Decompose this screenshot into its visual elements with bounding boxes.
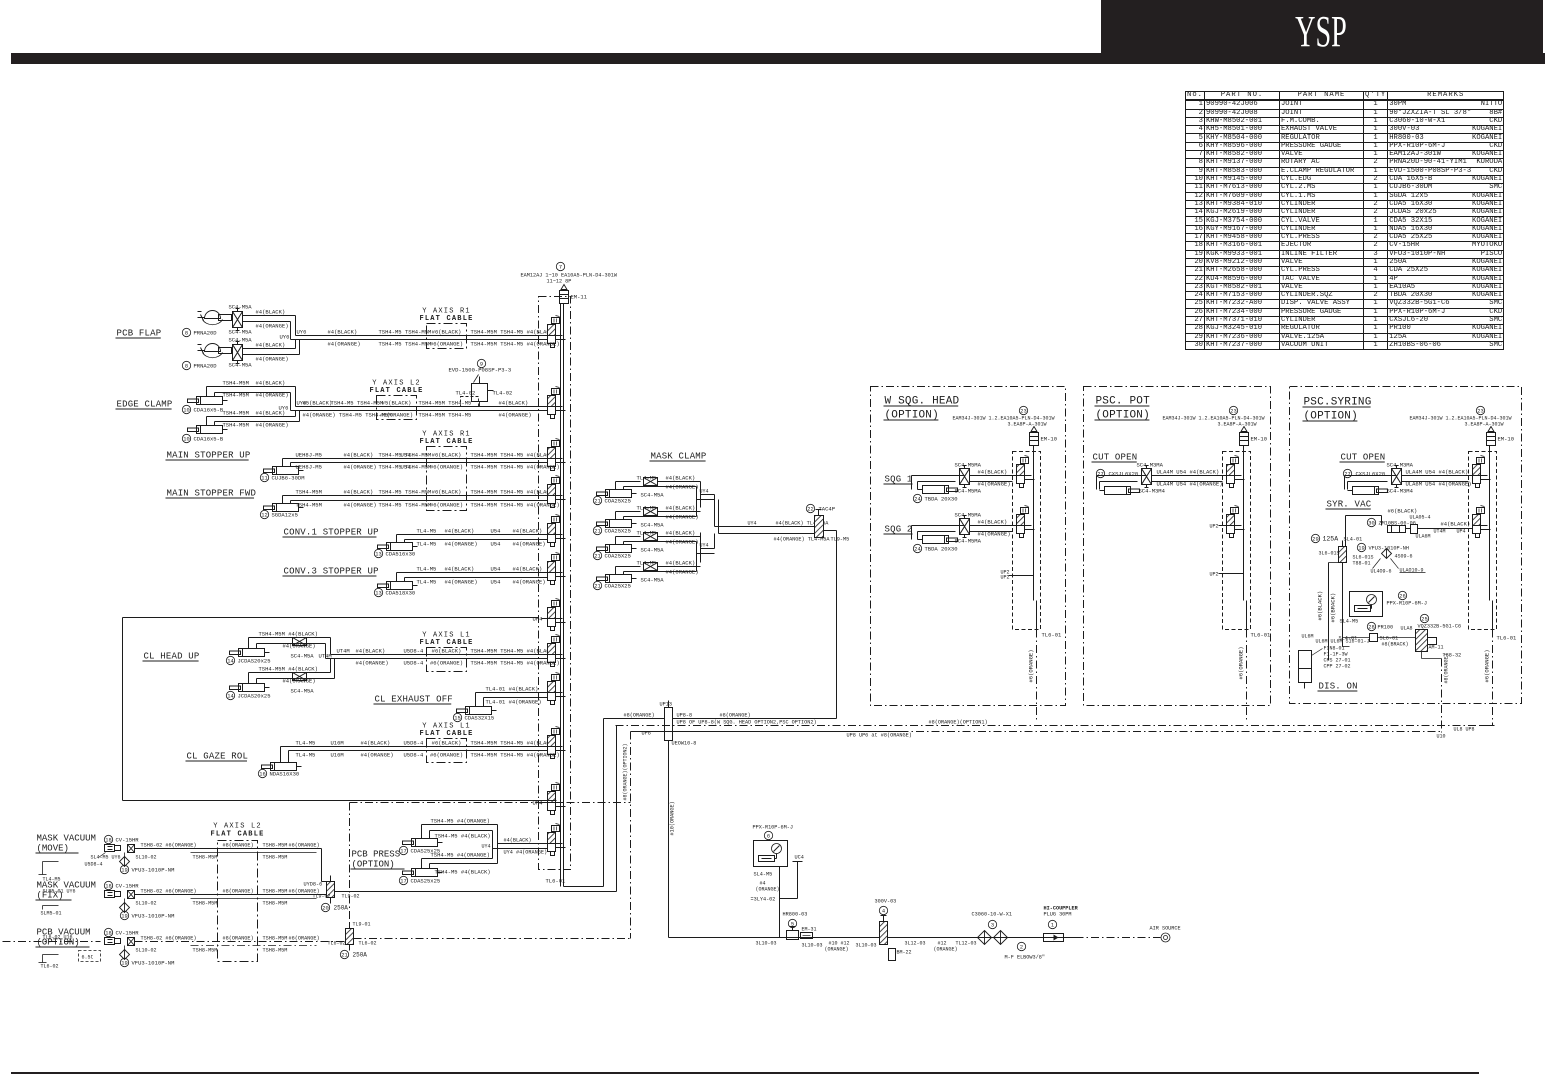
cylinder 11 CUJB6-30DM bbox=[273, 467, 299, 475]
svg-text:SYR. VAC: SYR. VAC bbox=[1327, 500, 1372, 510]
svg-text:3.EA8P-A-301W: 3.EA8P-A-301W bbox=[1218, 422, 1257, 428]
solenoid valve (POT cut open) bbox=[1227, 465, 1235, 476]
svg-text:TSH4-M5 #4(BLACK): TSH4-M5 #4(BLACK) bbox=[435, 869, 491, 876]
bottom border line bbox=[11, 1072, 1479, 1074]
CL section enclosure box bbox=[123, 617, 539, 619]
svg-text:UEH8J-M5: UEH8J-M5 bbox=[296, 464, 322, 471]
svg-text:UY6: UY6 bbox=[297, 329, 307, 336]
svg-text:#6(BLACK): #6(BLACK) bbox=[1317, 591, 1324, 621]
svg-text:#4(BLACK): #4(BLACK) bbox=[344, 452, 374, 459]
dash boundary PCB PRESS option bbox=[350, 802, 631, 804]
svg-text:#4(BLACK): #4(BLACK) bbox=[445, 528, 475, 535]
wire PCB FLAP A orange bbox=[243, 321, 291, 323]
svg-text:10: 10 bbox=[183, 437, 189, 443]
svg-text:CDAS25x25: CDAS25x25 bbox=[411, 878, 441, 885]
label 23 valve assy (PSC POT) bbox=[1229, 406, 1237, 414]
label 23 valve assy (W SQG) bbox=[1019, 406, 1027, 414]
svg-text:EM-10: EM-10 bbox=[1498, 436, 1515, 443]
svg-text:SQG 2: SQG 2 bbox=[885, 525, 913, 535]
svg-text:UL6M: UL6M bbox=[1302, 634, 1314, 640]
inline filter 19 VFU3-1010P-NH (MASK VACUUM MOVE) bbox=[120, 857, 130, 867]
svg-text:#8(ORANGE)(OPTION1): #8(ORANGE)(OPTION1) bbox=[929, 720, 988, 726]
supply line TL6-01 (POT) bbox=[1246, 601, 1248, 630]
rotary actuator 8 PRNA20D #1 bbox=[205, 311, 221, 319]
svg-text:PLUG 30PM: PLUG 30PM bbox=[1044, 912, 1072, 918]
svg-text:TSH4-M5M TSH4-M5 #4(BLACK): TSH4-M5M TSH4-M5 #4(BLACK) bbox=[471, 329, 557, 336]
svg-text:CXSJL6X20: CXSJL6X20 bbox=[1356, 471, 1386, 478]
svg-text:SC4-M3M4: SC4-M3M4 bbox=[1387, 488, 1414, 495]
svg-text:COA25X25: COA25X25 bbox=[605, 553, 631, 560]
svg-text:(ORANGE): (ORANGE) bbox=[825, 947, 849, 953]
solenoid valve SQG 2 bbox=[1017, 515, 1025, 526]
wire PCB VACUUM bbox=[135, 941, 346, 943]
wire pair CL GAZE ROL to valve 10 bbox=[280, 747, 282, 763]
svg-text:TSH8-02 #6(ORANGE): TSH8-02 #6(ORANGE) bbox=[141, 936, 197, 942]
ejector 18 CV-15HR (PCB VACUUM) bbox=[104, 928, 112, 936]
svg-text:CDA518X30: CDA518X30 bbox=[386, 590, 416, 597]
wire pair MAIN STOPPER FWD to valve 4 bbox=[282, 496, 284, 504]
wire EDGE CLAMP B orange bbox=[214, 422, 216, 426]
svg-text:#6(ORANGE): #6(ORANGE) bbox=[430, 341, 463, 348]
svg-text:TL4-M5: TL4-M5 bbox=[637, 505, 657, 512]
svg-text:CUJB6-30DM: CUJB6-30DM bbox=[272, 475, 305, 482]
fitting (PCB VACUUM) bbox=[128, 938, 135, 946]
svg-text:MASK VACUUM: MASK VACUUM bbox=[37, 834, 96, 844]
svg-text:TSH8-M5M: TSH8-M5M bbox=[263, 855, 288, 861]
wire TAC4P down to junction line bbox=[824, 530, 837, 532]
svg-text:6: 6 bbox=[767, 834, 770, 840]
cylinder 21 COA25X25 #1 bbox=[606, 490, 632, 498]
svg-text:#5(BLACK): #5(BLACK) bbox=[382, 400, 412, 407]
svg-text:7: 7 bbox=[559, 265, 562, 271]
cylinder 15 CDAS32X15 bbox=[466, 707, 492, 715]
svg-text:TSH4-M5 TSH4-M5M: TSH4-M5 TSH4-M5M bbox=[331, 400, 384, 407]
svg-text:TL4-M5: TL4-M5 bbox=[417, 566, 437, 573]
wire mask clamp cyl#1 orange bbox=[623, 487, 625, 490]
svg-text:U5D8-4: U5D8-4 bbox=[404, 740, 425, 747]
svg-text:CL GAZE ROL: CL GAZE ROL bbox=[187, 752, 249, 762]
label 10 CDA16x5-B #2 bbox=[182, 434, 190, 442]
solenoid valve 1 (PCB FLAP) bbox=[548, 325, 556, 336]
wire MASK VACUUM MOVE bbox=[135, 848, 322, 850]
svg-text:CUT OPEN: CUT OPEN bbox=[1093, 453, 1138, 463]
svg-text:#4(ORANGE): #4(ORANGE) bbox=[666, 484, 699, 491]
svg-text:AM-11: AM-11 bbox=[1429, 645, 1444, 651]
svg-text:TL4-02: TL4-02 bbox=[493, 390, 513, 397]
flat cable box Y AXIS L2 bbox=[377, 396, 417, 420]
svg-text:PPX-R10P-6M-J: PPX-R10P-6M-J bbox=[1387, 601, 1427, 607]
svg-text:#8(ORANGE): #8(ORANGE) bbox=[223, 936, 254, 942]
svg-text:#4(ORANGE): #4(ORANGE) bbox=[499, 412, 532, 419]
svg-text:21: 21 bbox=[341, 953, 347, 959]
wire 250A output to riser bbox=[335, 891, 617, 893]
svg-text:#4(ORANGE): #4(ORANGE) bbox=[283, 643, 316, 650]
svg-text:#4(BLACK): #4(BLACK) bbox=[256, 380, 286, 387]
manifold box (PSC POT) bbox=[1223, 452, 1251, 630]
dashed riser from 250A-2 to PCB PRESS box bbox=[349, 803, 351, 929]
inline filter 19 VFU3-1010P-NH (MASK VACUUM FIX) bbox=[120, 903, 130, 913]
valve 20 250A bbox=[327, 882, 335, 898]
trunk line 1 (UP8-8) bbox=[604, 718, 665, 720]
svg-text:EM-31: EM-31 bbox=[802, 927, 817, 933]
svg-text:TSH4-M5M TSH4-M5 #4(BLACK): TSH4-M5M TSH4-M5 #4(BLACK) bbox=[471, 740, 557, 747]
svg-text:#6(ORANGE): #6(ORANGE) bbox=[430, 752, 463, 759]
svg-text:23: 23 bbox=[1230, 409, 1236, 415]
svg-text:TSH4-M5 #4(BLACK): TSH4-M5 #4(BLACK) bbox=[435, 833, 491, 840]
svg-text:TBDA 20X30: TBDA 20X30 bbox=[925, 546, 958, 553]
svg-text:TSH8-02 #6(ORANGE): TSH8-02 #6(ORANGE) bbox=[141, 843, 197, 849]
rotary actuator 8 PRNA20D #2 bbox=[205, 344, 221, 352]
svg-text:#4(BLACK): #4(BLACK) bbox=[256, 342, 286, 349]
svg-text:#8(ORANGE)(OPTION2): #8(ORANGE)(OPTION2) bbox=[623, 743, 629, 800]
svg-text:UY4: UY4 bbox=[700, 489, 709, 495]
svg-text:3L10-03: 3L10-03 bbox=[856, 943, 877, 949]
svg-text:ULA8: ULA8 bbox=[1401, 626, 1413, 632]
svg-text:U54: U54 bbox=[491, 566, 502, 573]
svg-text:VFU3-1010P-NM: VFU3-1010P-NM bbox=[132, 960, 175, 967]
flat cable box Y AXIS L1 bbox=[427, 739, 467, 763]
wire mask clamp cyl#2 orange bbox=[623, 517, 625, 520]
svg-text:#8(ORANGE): #8(ORANGE) bbox=[720, 713, 751, 719]
cylinder 21 COA25X25 #3 bbox=[606, 545, 632, 553]
svg-text:14: 14 bbox=[227, 694, 233, 700]
fitting (MASK VACUUM MOVE) bbox=[128, 845, 135, 853]
svg-text:HR800-03: HR800-03 bbox=[783, 912, 808, 918]
svg-text:250A: 250A bbox=[353, 952, 368, 959]
svg-text:#6(BLACK): #6(BLACK) bbox=[432, 740, 462, 747]
wire CL HEAD B orange bbox=[256, 679, 258, 684]
svg-text:#6(BLACK): #6(BLACK) bbox=[432, 452, 462, 459]
manifold supply bus lines bbox=[560, 304, 562, 887]
svg-text:U10: U10 bbox=[1437, 734, 1446, 740]
svg-text:#4(BLACK): #4(BLACK) bbox=[513, 528, 543, 535]
svg-text:TL4-M5: TL4-M5 bbox=[637, 475, 657, 482]
svg-text:28: 28 bbox=[1368, 625, 1374, 631]
air source symbol bbox=[1161, 933, 1170, 942]
svg-text:TL4-M5: TL4-M5 bbox=[637, 560, 657, 567]
svg-text:2: 2 bbox=[1020, 945, 1023, 951]
syringe body bbox=[1299, 651, 1312, 669]
svg-text:UYD8-6: UYD8-6 bbox=[304, 882, 323, 888]
svg-text:3L12-03: 3L12-03 bbox=[905, 941, 926, 947]
svg-text:PR100: PR100 bbox=[1378, 625, 1394, 631]
svg-text:SC4-M5A: SC4-M5A bbox=[229, 362, 253, 369]
wire MASK VACUUM FIX bbox=[135, 894, 327, 896]
svg-text:EM-11: EM-11 bbox=[571, 294, 588, 301]
flat cable box Y AXIS R1 bbox=[427, 447, 467, 511]
solenoid valve 6 (CONV.3) bbox=[548, 562, 556, 573]
ejector 18 CV-15HR (MASK VACUUM MOVE) bbox=[104, 835, 112, 843]
svg-text:#4(ORANGE): #4(ORANGE) bbox=[445, 541, 478, 548]
svg-text:TSH4-M5M: TSH4-M5M bbox=[223, 422, 249, 429]
svg-text:BM-22: BM-22 bbox=[897, 950, 912, 956]
cylinder 24 TBDA 20X30 (SQG1) bbox=[923, 486, 949, 494]
svg-text:TSH4-M5M TSH4-M5 #4(ORANGE): TSH4-M5M TSH4-M5 #4(ORANGE) bbox=[471, 660, 560, 667]
svg-text:#4(BLACK): #4(BLACK) bbox=[666, 530, 696, 537]
svg-text:#4(BLACK): #4(BLACK) bbox=[499, 400, 529, 407]
svg-text:SC4-M5A: SC4-M5A bbox=[291, 688, 315, 695]
svg-text:CDA16x5-B: CDA16x5-B bbox=[194, 436, 224, 443]
svg-text:4: 4 bbox=[882, 909, 885, 915]
svg-text:VFU3-1010P-NM: VFU3-1010P-NM bbox=[132, 913, 175, 920]
wire CL HEAD B black bbox=[248, 673, 250, 684]
svg-text:TL6-01: TL6-01 bbox=[1042, 632, 1063, 639]
speed controller SC4-M5A (mask clamp) #3 bbox=[644, 533, 658, 541]
svg-text:TSH8-M5M: TSH8-M5M bbox=[263, 843, 288, 849]
label 8 PRNA20D #2 bbox=[182, 361, 190, 369]
svg-text:#4(BLACK): #4(BLACK) bbox=[666, 560, 696, 567]
manifold box (W SQG) bbox=[1013, 452, 1041, 630]
svg-text:#8(ORANGE): #8(ORANGE) bbox=[624, 713, 655, 719]
svg-text:SLM5-01 UY6: SLM5-01 UY6 bbox=[43, 889, 76, 895]
solenoid valve 4 (MAIN STOPPER FWD) bbox=[548, 485, 556, 496]
solenoid valve SQG 1 bbox=[1017, 465, 1025, 476]
svg-text:TSH4-M5M: TSH4-M5M bbox=[223, 410, 249, 417]
svg-text:PCB PRESS: PCB PRESS bbox=[352, 850, 401, 860]
svg-text:CV-15HR: CV-15HR bbox=[116, 883, 140, 890]
svg-text:UP4: UP4 bbox=[1457, 529, 1466, 535]
inline filter 19 VFU3-1010P-NH (SYRING) bbox=[1357, 543, 1365, 551]
svg-text:UY4: UY4 bbox=[700, 543, 709, 549]
cylinder 12 SGDA12x5 bbox=[273, 504, 299, 512]
svg-text:#4(ORANGE): #4(ORANGE) bbox=[256, 392, 289, 399]
vacuum unit 30 ZH10BS-06-06 bbox=[1367, 518, 1375, 526]
node UY4 group2 bbox=[700, 533, 702, 563]
svg-text:#4(BLACK): #4(BLACK) bbox=[666, 475, 696, 482]
cylinder 27 CXSJL6X20 (POT) bbox=[1096, 469, 1104, 477]
svg-text:TSH8-02 #6(ORANGE): TSH8-02 #6(ORANGE) bbox=[141, 889, 197, 895]
svg-text:SC4-M5A: SC4-M5A bbox=[641, 577, 665, 584]
svg-text:#4(BLACK): #4(BLACK) bbox=[445, 566, 475, 573]
wire pair EDGE CLAMP to valve 2 bbox=[296, 406, 548, 408]
cylinder 14 JCDAS20x25 #1 bbox=[239, 649, 265, 657]
svg-text:TSH4-M5M TSH4-M5: TSH4-M5M TSH4-M5 bbox=[419, 400, 472, 407]
parts list table bbox=[1185, 91, 1504, 350]
svg-text:CXSJL6X20: CXSJL6X20 bbox=[1109, 471, 1139, 478]
flat cable box Y AXIS R1 bbox=[427, 324, 467, 349]
svg-text:#4(BLACK): #4(BLACK) bbox=[1441, 521, 1471, 528]
svg-text:U5D8-4: U5D8-4 bbox=[404, 752, 425, 759]
supply line TL6-01 (SYRING) bbox=[1492, 601, 1494, 630]
svg-text:TL6-02 U16: TL6-02 U16 bbox=[43, 935, 73, 941]
wire pair MAIN STOPPER UP to valve 3 bbox=[282, 459, 284, 467]
svg-text:12: 12 bbox=[261, 513, 267, 519]
svg-text:#4(ORANGE): #4(ORANGE) bbox=[978, 481, 1011, 488]
svg-text:SGDA12x5: SGDA12x5 bbox=[272, 512, 298, 519]
wire mask clamp cyl#3 orange bbox=[623, 542, 625, 545]
svg-text:19: 19 bbox=[121, 961, 127, 967]
svg-text:PPX-R10P-6M-J: PPX-R10P-6M-J bbox=[753, 825, 793, 831]
cylinder 24 TBDA 20X30 (SQG2) bbox=[923, 536, 949, 544]
svg-text:#4(BLACK): #4(BLACK) bbox=[978, 469, 1008, 476]
svg-text:NDAS16X30: NDAS16X30 bbox=[270, 771, 300, 778]
svg-text:EDGE CLAMP: EDGE CLAMP bbox=[117, 400, 173, 410]
title block bbox=[1101, 0, 1543, 64]
svg-text:TSH4-M5M TSH4-M5 #4(BLACK): TSH4-M5M TSH4-M5 #4(BLACK) bbox=[471, 648, 557, 655]
svg-text:TL6-02: TL6-02 bbox=[359, 941, 377, 947]
svg-text:#8(ORANGE): #8(ORANGE) bbox=[1444, 653, 1450, 683]
svg-text:#4(ORANGE): #4(ORANGE) bbox=[361, 752, 394, 759]
disp valve assy 25 VQZ332B-5G1-C6 bbox=[1420, 614, 1428, 622]
svg-text:COA25X25: COA25X25 bbox=[605, 583, 631, 590]
speed controller SC4-M5MA (SQG2) bbox=[960, 519, 970, 535]
svg-text:TL6-01: TL6-01 bbox=[1497, 635, 1518, 642]
svg-text:(ORANGE): (ORANGE) bbox=[756, 887, 780, 893]
svg-text:VQZ332B-5G1-C6: VQZ332B-5G1-C6 bbox=[1418, 624, 1462, 630]
svg-text:3L6-01S: 3L6-01S bbox=[1319, 551, 1340, 557]
svg-text:SL4-M5: SL4-M5 bbox=[1340, 619, 1359, 625]
terminal block EM-10 (PSC POT) bbox=[1240, 433, 1249, 446]
svg-text:UP8 UP6 at #8(ORANGE): UP8 UP6 at #8(ORANGE) bbox=[847, 733, 912, 739]
svg-text:CL EXHAUST OFF: CL EXHAUST OFF bbox=[375, 695, 453, 705]
svg-text:TSH8-M5M: TSH8-M5M bbox=[193, 948, 218, 954]
svg-text:TL6-01: TL6-01 bbox=[546, 878, 567, 885]
svg-text:27: 27 bbox=[1097, 472, 1103, 478]
svg-text:CV-15HR: CV-15HR bbox=[116, 930, 140, 937]
svg-text:TL4-M5: TL4-M5 bbox=[637, 530, 657, 537]
svg-text:TL4-M5: TL4-M5 bbox=[417, 528, 437, 535]
svg-text:TL4-M5: TL4-M5 bbox=[417, 541, 437, 548]
speed controller SC4-M5A (mask clamp) #4 bbox=[644, 563, 658, 571]
wire CL HEAD A black bbox=[248, 638, 250, 649]
label 23 valve assy (SYRING) bbox=[1476, 406, 1484, 414]
svg-text:TSH4-M5 TSH4-M5M: TSH4-M5 TSH4-M5M bbox=[379, 452, 432, 459]
svg-text:#4(BLACK): #4(BLACK) bbox=[666, 505, 696, 512]
wires SYR cut open to valve bbox=[1344, 476, 1346, 490]
svg-text:EM-10: EM-10 bbox=[1041, 436, 1058, 443]
svg-text:TL4-M5: TL4-M5 bbox=[296, 752, 316, 759]
svg-text:ULA6M U54 #4(ORANGE): ULA6M U54 #4(ORANGE) bbox=[1406, 481, 1472, 488]
svg-text:UEOW10-8: UEOW10-8 bbox=[672, 741, 697, 747]
wire gauge to air line bbox=[779, 867, 781, 938]
svg-text:#8(ORANGE): #8(ORANGE) bbox=[223, 889, 254, 895]
regulator 28 PR100 bbox=[1367, 622, 1375, 630]
svg-text:CDA16x5-B: CDA16x5-B bbox=[194, 407, 224, 414]
wires SYR VAC bbox=[1346, 515, 1382, 517]
wire mask clamp cyl#4 black bbox=[615, 567, 617, 575]
svg-text:ULA6M: ULA6M bbox=[1416, 534, 1431, 540]
svg-text:TSH4-M5 TSH4-M5M: TSH4-M5 TSH4-M5M bbox=[379, 329, 432, 336]
speed controller SC4-M5A (mask clamp) #1 bbox=[644, 478, 658, 486]
trunk line 3 bbox=[631, 731, 901, 733]
speed controller SC4-M5A (CL HEAD) #1 bbox=[293, 638, 307, 646]
speed controller SC4-M5A (CL HEAD) #2 bbox=[293, 673, 307, 681]
svg-text:ULA4M U54 #4(ORANGE): ULA4M U54 #4(ORANGE) bbox=[1157, 481, 1223, 488]
wires SQG2 to valve bbox=[911, 526, 913, 540]
svg-text:C3060-10-W-X1: C3060-10-W-X1 bbox=[972, 912, 1012, 918]
svg-text:TSH8-M5M: TSH8-M5M bbox=[263, 901, 288, 907]
svg-text:#6(BLACK): #6(BLACK) bbox=[1388, 508, 1418, 515]
wires 125A to gauge box bbox=[1342, 563, 1344, 647]
wire FIX to 250A valve left port bbox=[326, 892, 328, 895]
svg-text:U54: U54 bbox=[491, 579, 502, 586]
solenoid valve 10 (CL GAZE ROL) bbox=[548, 736, 556, 747]
wire pair to TAC4P bbox=[760, 526, 815, 528]
speed controller SC4-M5MA (SQG1) bbox=[960, 469, 970, 485]
svg-text:16: 16 bbox=[259, 772, 265, 778]
svg-text:10: 10 bbox=[183, 408, 189, 414]
cylinder 21 COA25X25 #2 bbox=[606, 520, 632, 528]
svg-text:125A: 125A bbox=[1323, 536, 1339, 543]
svg-text:CL HEAD UP: CL HEAD UP bbox=[144, 652, 200, 662]
svg-text:#4(BLACK): #4(BLACK) bbox=[256, 309, 286, 316]
svg-text:UEH8J-M5: UEH8J-M5 bbox=[296, 452, 322, 459]
svg-text:#6(BRACK): #6(BRACK) bbox=[1330, 593, 1337, 623]
svg-text:FLAT CABLE: FLAT CABLE bbox=[419, 315, 473, 323]
svg-text:SC4-M3MA: SC4-M3MA bbox=[1387, 462, 1414, 469]
svg-text:21: 21 bbox=[594, 584, 600, 590]
svg-text:MASK CLAMP: MASK CLAMP bbox=[651, 452, 707, 462]
main air supply line bbox=[669, 937, 1076, 939]
wire pair CONV.1 to valve 5 bbox=[396, 535, 398, 543]
svg-text:3.EA8P-A-301W: 3.EA8P-A-301W bbox=[1008, 422, 1047, 428]
svg-text:SC4-M5A: SC4-M5A bbox=[291, 653, 315, 660]
svg-text:#5(ORANGE): #5(ORANGE) bbox=[380, 412, 413, 419]
svg-text:UP13: UP13 bbox=[660, 702, 672, 708]
svg-text:#10(ORANGE): #10(ORANGE) bbox=[670, 801, 676, 835]
solenoid valve 5 (CONV.1) bbox=[548, 524, 556, 535]
riser v1 x603 bbox=[603, 719, 605, 887]
manifold drain to junction bbox=[564, 886, 604, 888]
svg-text:#4(ORANGE): #4(ORANGE) bbox=[256, 323, 289, 330]
svg-text:T88-01: T88-01 bbox=[1353, 561, 1371, 567]
svg-text:TSH8-M5M: TSH8-M5M bbox=[263, 948, 288, 954]
svg-text:CPP 27-02: CPP 27-02 bbox=[1324, 664, 1351, 670]
svg-text:MAIN STOPPER FWD: MAIN STOPPER FWD bbox=[167, 489, 257, 499]
wire pair CONV.3 to valve 6 bbox=[396, 573, 398, 582]
svg-text:#4(ORANGE): #4(ORANGE) bbox=[344, 502, 377, 509]
svg-text:UL4O9-6: UL4O9-6 bbox=[1371, 569, 1392, 575]
svg-text:SC4-M5A: SC4-M5A bbox=[229, 304, 253, 311]
svg-text:3L10-03: 3L10-03 bbox=[802, 943, 823, 949]
trunk line 2 dash-dot to options bbox=[616, 725, 1495, 727]
svg-text:30: 30 bbox=[1368, 521, 1374, 527]
cylinder 17 CDAS25x25 #2 bbox=[412, 869, 438, 877]
svg-text:13: 13 bbox=[375, 591, 381, 597]
svg-text:#4(BLACK): #4(BLACK) bbox=[344, 489, 374, 496]
flat cable box Y AXIS L1 bbox=[427, 648, 467, 672]
supply line TL6-01 (W SQG) bbox=[1036, 601, 1038, 630]
svg-text:CDA516x30: CDA516x30 bbox=[386, 551, 416, 558]
svg-text:UY6: UY6 bbox=[279, 405, 289, 412]
svg-text:#4(ORANGE): #4(ORANGE) bbox=[256, 356, 289, 363]
svg-text:29: 29 bbox=[1312, 537, 1318, 543]
svg-text:DIS. ON: DIS. ON bbox=[1319, 682, 1358, 692]
ejector 18 CV-15HR (MASK VACUUM FIX) bbox=[104, 881, 112, 889]
svg-text:6.5t: 6.5t bbox=[82, 955, 94, 961]
svg-text:TSH4-M5M TSH4-M5 #4(ORANGE): TSH4-M5M TSH4-M5 #4(ORANGE) bbox=[471, 752, 560, 759]
solenoid valve (POT spare) bbox=[1227, 515, 1235, 526]
svg-text:PRNA20D: PRNA20D bbox=[194, 363, 218, 370]
svg-text:SL4-M5 UY6: SL4-M5 UY6 bbox=[91, 855, 121, 861]
solenoid valve 9 (CL EXHAUST OFF) bbox=[548, 682, 556, 693]
svg-text:SL10-02: SL10-02 bbox=[136, 855, 157, 861]
speed controller SC4-M5A (mask clamp) #2 bbox=[644, 508, 658, 516]
svg-text:#4(BLACK): #4(BLACK) bbox=[356, 648, 386, 655]
wire pair CL HEAD UP to valve 8 bbox=[331, 654, 548, 656]
wire EDGE CLAMP B black bbox=[206, 417, 208, 426]
svg-text:#6(ORANGE): #6(ORANGE) bbox=[430, 660, 463, 667]
terminal block EM-10 (W SQG) bbox=[1030, 433, 1039, 446]
svg-text:SC4-M5A: SC4-M5A bbox=[641, 492, 665, 499]
svg-text:SC4-M5A: SC4-M5A bbox=[229, 329, 253, 336]
svg-text:11: 11 bbox=[261, 476, 267, 482]
inline filter 19 VFU3-1010P-NH (PCB VACUUM) bbox=[120, 950, 130, 960]
svg-text:TSH8-M5M: TSH8-M5M bbox=[263, 889, 288, 895]
solenoid valve 3 (MAIN STOPPER UP) bbox=[548, 448, 556, 459]
svg-text:19: 19 bbox=[1358, 546, 1364, 552]
svg-text:UT4M: UT4M bbox=[337, 648, 350, 655]
